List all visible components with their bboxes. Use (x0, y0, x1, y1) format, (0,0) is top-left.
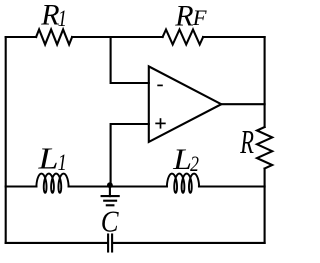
svg-text:R: R (40, 0, 59, 31)
svg-text:C: C (101, 205, 119, 239)
svg-text:2: 2 (190, 152, 199, 176)
svg-text:R: R (239, 123, 254, 161)
svg-text:F: F (192, 5, 207, 30)
svg-text:L: L (172, 143, 192, 176)
svg-text:R: R (174, 0, 193, 32)
svg-text:1: 1 (58, 149, 67, 176)
svg-text:L: L (37, 142, 58, 176)
svg-text:1: 1 (58, 5, 67, 32)
